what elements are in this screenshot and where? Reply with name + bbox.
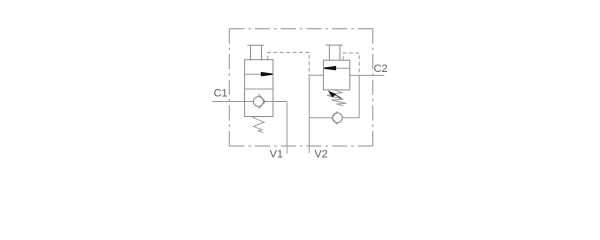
wire V2 riser line xyxy=(309,75,323,153)
counterbalance valve V1 body (left block) xyxy=(245,60,273,117)
pilot line (dashed) of right valve from C2 xyxy=(343,53,359,75)
pilot line (dashed) of left valve from V2 xyxy=(268,52,309,75)
wire V1 drop line xyxy=(286,102,288,154)
enclosure (valve body outline, dash-dot) xyxy=(229,29,372,146)
adjustment arrow through spring xyxy=(328,91,341,99)
wire check branch V2-to-C2 xyxy=(309,75,359,117)
flow arrow (left) inside right valve xyxy=(324,66,336,71)
spring of left valve xyxy=(253,117,264,133)
plug/adjuster on top of left valve xyxy=(247,45,264,59)
plug/adjuster on top of right valve xyxy=(326,45,343,60)
adjustable spring of right valve xyxy=(327,90,346,106)
check valve CV1 ball xyxy=(254,97,264,107)
svg-text:V2: V2 xyxy=(314,149,327,161)
wire C1-to-V1 line through left valve xyxy=(245,101,287,103)
svg-text:V1: V1 xyxy=(270,149,283,161)
check valve CV1 seat xyxy=(258,94,265,109)
wire C1 port line xyxy=(212,101,245,103)
relief valve V2 body (right block) xyxy=(323,60,349,90)
svg-text:C1: C1 xyxy=(214,87,228,99)
wire C2 port line xyxy=(350,74,385,76)
svg-text:C2: C2 xyxy=(374,63,388,75)
flow arrow (right) inside left valve xyxy=(261,72,273,77)
check valve CV2 seat xyxy=(332,111,338,124)
check valve CV2 ball xyxy=(333,113,343,123)
